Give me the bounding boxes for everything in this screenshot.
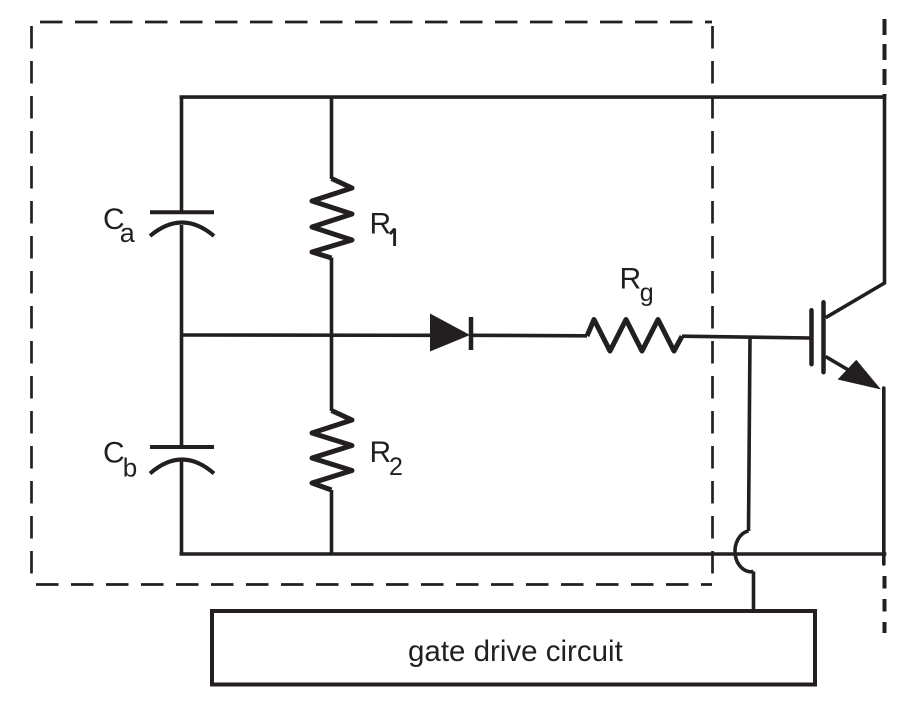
svg-text:b: b bbox=[123, 453, 137, 483]
svg-text:gate drive circuit: gate drive circuit bbox=[408, 635, 623, 668]
svg-text:2: 2 bbox=[389, 453, 403, 481]
svg-text:g: g bbox=[640, 279, 654, 307]
svg-text:C: C bbox=[103, 437, 125, 470]
svg-text:R: R bbox=[370, 436, 392, 469]
svg-text:R: R bbox=[370, 208, 392, 241]
svg-text:R: R bbox=[620, 263, 642, 296]
svg-text:a: a bbox=[120, 218, 136, 248]
